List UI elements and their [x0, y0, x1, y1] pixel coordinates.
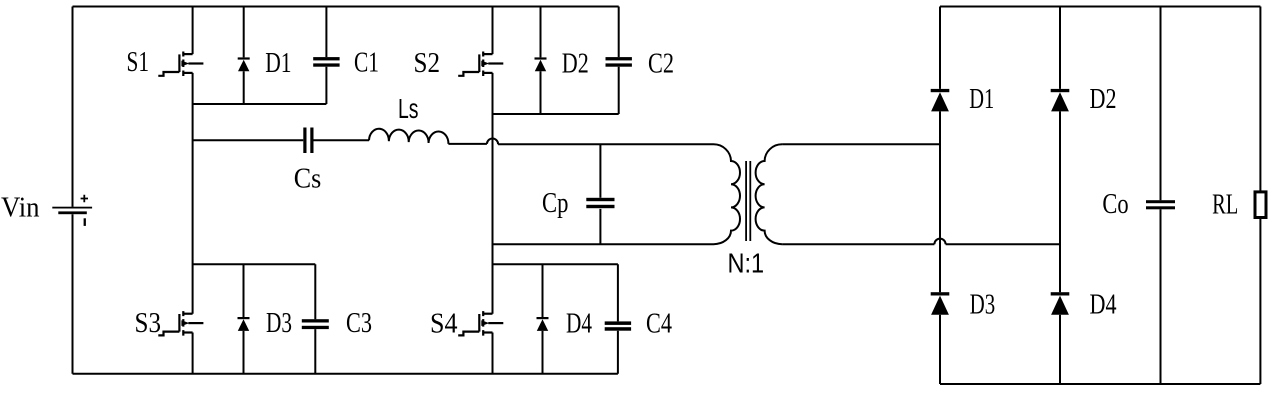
svg-text:N:1: N:1: [728, 248, 765, 279]
capacitor Co: [1160, 7, 1162, 385]
transistor S3: [158, 311, 203, 336]
transformer secondary winding: [756, 144, 783, 244]
wire: hop to D2-D4 branch: [946, 243, 1060, 245]
svg-text:S1: S1: [127, 47, 150, 78]
diode D3 (rectifier): [931, 292, 950, 315]
wire: S2 group bottom connector: [493, 113, 619, 115]
svg-text:D3: D3: [266, 308, 292, 339]
wire: S3 group top connector: [193, 263, 316, 265]
wire: S1-S3 bridge leg: [192, 7, 194, 374]
capacitor C2: [618, 7, 620, 115]
capacitor C1: [325, 7, 327, 105]
svg-text:C2: C2: [648, 49, 674, 80]
svg-text:RL: RL: [1212, 189, 1238, 220]
wire: S1 group bottom connector: [193, 103, 327, 105]
svg-text:C3: C3: [346, 308, 372, 339]
wire: transformer primary bottom return: [493, 243, 714, 245]
wire: RL branch / right rail: [1259, 7, 1261, 385]
svg-text:D1: D1: [969, 84, 994, 115]
svg-text:D2: D2: [562, 49, 589, 80]
wire hop over D1-D3 branch: [934, 239, 945, 245]
svg-text:D3: D3: [970, 289, 996, 320]
diode D1 (rectifier): [931, 89, 950, 112]
diode D3 (bridge): [243, 264, 245, 374]
transistor S1: [158, 52, 203, 77]
capacitor Cp: [599, 144, 601, 244]
capacitor C4: [617, 264, 619, 374]
wire: node A to Cs: [193, 139, 304, 141]
wire: rectifier bottom rail: [940, 383, 1260, 385]
svg-text:Co: Co: [1102, 189, 1128, 220]
wire hop over S2 leg: [487, 138, 498, 144]
wire: bottom rail of inverter bridge: [73, 373, 618, 375]
svg-text:Ls: Ls: [398, 93, 419, 124]
svg-text:Cp: Cp: [542, 188, 568, 219]
svg-text:C1: C1: [354, 48, 379, 79]
wire: rectifier top rail: [940, 6, 1260, 8]
wire: S4 group top connector: [493, 263, 618, 265]
capacitor C3: [314, 264, 316, 374]
transistor S2: [458, 52, 503, 77]
svg-text:S3: S3: [135, 308, 162, 339]
diode D2 (rectifier): [1051, 89, 1070, 112]
wire: S2-S4 bridge leg: [492, 7, 494, 374]
wire: secondary top to rectifier: [782, 143, 940, 145]
resistor RL: [1255, 192, 1266, 218]
transformer primary winding: [714, 144, 741, 244]
transformer core: [746, 161, 750, 241]
wire: hop to transformer primary: [498, 143, 713, 145]
diode D4 (rectifier): [1051, 292, 1070, 315]
inductor Ls: [369, 129, 448, 144]
svg-text:S2: S2: [414, 48, 441, 79]
svg-text:D1: D1: [265, 48, 291, 79]
wire: top rail of inverter bridge: [73, 6, 619, 8]
svg-text:C4: C4: [646, 309, 672, 340]
wire: secondary bottom to hop: [782, 243, 934, 245]
capacitor Cs: [303, 128, 306, 154]
svg-text:Vin: Vin: [1, 193, 40, 224]
svg-text:D4: D4: [1090, 289, 1117, 320]
transistor S4: [458, 311, 503, 336]
wire: D2-D4 branch: [1059, 7, 1061, 385]
svg-text:S4: S4: [430, 309, 458, 340]
battery Vin: [52, 195, 92, 226]
svg-text:Cs: Cs: [294, 164, 322, 195]
wire: left input rail: [72, 7, 74, 374]
svg-text:D4: D4: [566, 309, 592, 340]
wire: D1-D3 branch: [939, 7, 941, 385]
wire: Ls to hop: [448, 143, 487, 145]
svg-text:D2: D2: [1090, 84, 1117, 115]
wire: Cs to Ls: [314, 139, 370, 141]
diode D2 (bridge): [540, 7, 542, 115]
diode D4 (bridge): [542, 264, 544, 374]
diode D1 (bridge): [243, 7, 245, 105]
